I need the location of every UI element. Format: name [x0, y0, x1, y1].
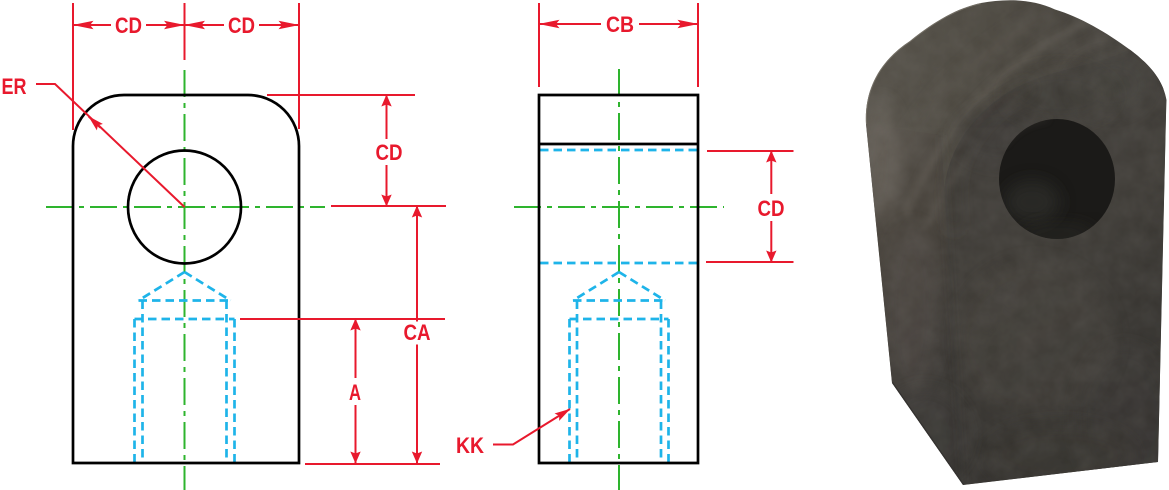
- svg-text:CA: CA: [404, 320, 431, 345]
- svg-text:CD: CD: [376, 140, 403, 165]
- svg-text:A: A: [349, 380, 361, 405]
- svg-text:CD: CD: [228, 13, 255, 38]
- svg-text:CD: CD: [115, 13, 142, 38]
- svg-text:KK: KK: [456, 433, 484, 458]
- svg-text:CD: CD: [758, 196, 785, 221]
- svg-text:CB: CB: [606, 12, 634, 37]
- svg-text:ER: ER: [2, 74, 27, 99]
